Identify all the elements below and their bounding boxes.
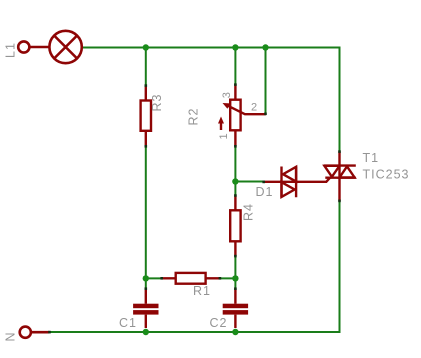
- wire R4 to C2 node: [234, 256, 236, 289]
- node junction top rail / R3: [143, 44, 149, 50]
- terminal N: [20, 327, 50, 338]
- wire branch1 middle (R3 to R1 node): [145, 146, 147, 278]
- resistor R3: [141, 85, 151, 146]
- capacitor C1: [133, 289, 158, 329]
- lamp symbol: [49, 31, 81, 63]
- node junction top rail / R2: [232, 44, 238, 50]
- wire right rail lower: [339, 201, 341, 333]
- pin end dots: [48, 83, 341, 333]
- terminal L1: [18, 41, 49, 52]
- svg-text:1: 1: [218, 133, 230, 139]
- svg-text:D1: D1: [256, 185, 274, 199]
- capacitor C2: [223, 289, 248, 329]
- node junction bottom rail / C2: [232, 329, 238, 335]
- svg-text:C2: C2: [210, 316, 228, 330]
- node junction D1 gate: [232, 178, 238, 184]
- svg-text:R4: R4: [242, 203, 256, 221]
- wire branch1 top (rail to R3): [145, 48, 147, 86]
- node junction top rail / pin2 riser: [262, 44, 268, 50]
- wire top rail: [83, 47, 341, 49]
- node junction R1 right: [232, 275, 238, 281]
- svg-text:TIC253: TIC253: [363, 168, 410, 182]
- wire pot pin2 riser: [265, 48, 267, 114]
- potentiometer R2: [221, 84, 266, 146]
- node junction bottom rail / C1: [143, 329, 149, 335]
- wire R1 right link: [219, 277, 235, 279]
- wire bottom rail: [49, 331, 341, 333]
- wire branch2 top (rail to R2): [234, 48, 236, 85]
- svg-text:T1: T1: [363, 151, 380, 165]
- svg-text:C1: C1: [119, 316, 137, 330]
- wire R2 to R4 (through D1 node): [234, 146, 236, 195]
- wire D1 gate branch: [235, 181, 263, 183]
- wire R1 left link: [146, 277, 162, 279]
- svg-text:N: N: [4, 331, 18, 341]
- wire right rail upper: [339, 47, 341, 152]
- diac D1: [264, 167, 331, 198]
- resistor R4: [230, 195, 240, 256]
- node junction R1 left: [143, 275, 149, 281]
- svg-text:2: 2: [251, 102, 257, 114]
- resistor R1: [162, 273, 220, 284]
- svg-text:L1: L1: [4, 42, 18, 58]
- svg-text:R1: R1: [193, 284, 211, 298]
- triac T1: [324, 152, 356, 201]
- svg-text:3: 3: [221, 92, 233, 98]
- svg-text:R3: R3: [150, 94, 164, 112]
- svg-text:R2: R2: [187, 108, 201, 126]
- wire C1 top stub: [145, 278, 147, 288]
- potentiometer R2 adjust arrowhead: [218, 117, 224, 124]
- potentiometer R2 wiper arrowhead: [223, 103, 231, 109]
